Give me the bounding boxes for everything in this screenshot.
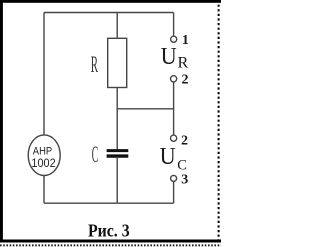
svg-text:R: R <box>91 52 99 78</box>
svg-text:U: U <box>160 143 176 170</box>
svg-text:C: C <box>92 141 98 167</box>
svg-text:R: R <box>178 53 189 72</box>
svg-text:Рис. 3: Рис. 3 <box>88 221 130 241</box>
svg-text:2: 2 <box>182 73 189 88</box>
svg-text:U: U <box>161 43 177 70</box>
svg-text:2: 2 <box>181 134 188 149</box>
svg-text:C: C <box>177 157 187 173</box>
svg-text:1: 1 <box>182 33 189 48</box>
svg-text:1002: 1002 <box>31 157 55 171</box>
svg-text:3: 3 <box>181 173 188 188</box>
